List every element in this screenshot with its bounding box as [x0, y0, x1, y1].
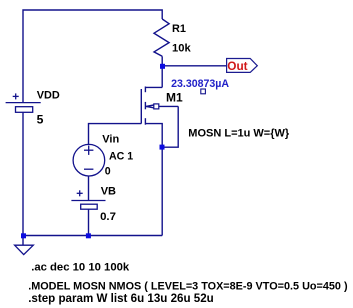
wire Vin plus up to gate corner — [89, 124, 142, 145]
wire ground stem — [22, 236, 24, 245]
resistor R1 — [154, 19, 169, 56]
svg-text:M1: M1 — [166, 91, 183, 105]
wire M1 source node down to rail — [161, 147, 163, 235]
svg-text:Out: Out — [227, 59, 247, 73]
svg-text:VB: VB — [101, 186, 116, 198]
current probe marker square — [201, 89, 206, 94]
node junction at ground — [21, 233, 26, 238]
svg-text:AC 1: AC 1 — [109, 151, 133, 163]
transistor M1 (NMOS) — [141, 87, 178, 148]
svg-text:.MODEL MOSN NMOS ( LEVEL=3 TOX: .MODEL MOSN NMOS ( LEVEL=3 TOX=8E-9 VTO=… — [28, 280, 348, 292]
svg-text:R1: R1 — [172, 23, 186, 35]
node junction at VB/rail — [86, 233, 91, 238]
svg-text:10k: 10k — [172, 42, 191, 54]
net flag Out — [227, 59, 258, 73]
svg-text:VDD: VDD — [37, 90, 60, 102]
wire VDD plus up and top rail to R1 — [23, 10, 162, 103]
wire VDD minus down to ground node — [22, 112, 24, 235]
svg-text:MOSN L=1u W={W}: MOSN L=1u W={W} — [188, 127, 290, 139]
svg-text:.ac dec 10 10 100k: .ac dec 10 10 100k — [31, 261, 130, 273]
wire R1 bottom through node to M1 drain — [161, 56, 163, 87]
svg-text:0: 0 — [105, 165, 111, 177]
node junction at source/bulk — [160, 145, 165, 150]
svg-text:0.7: 0.7 — [100, 211, 116, 223]
svg-text:5: 5 — [37, 112, 44, 126]
wire bottom rail — [23, 235, 162, 237]
voltage source Vin (AC source circle) — [73, 144, 105, 176]
wire Vin minus to VB plus — [88, 176, 90, 201]
wire node to Out flag — [162, 65, 226, 67]
wire M1 bulk down to source node — [162, 106, 178, 147]
svg-text:Vin: Vin — [102, 134, 119, 146]
svg-text:.step param W list 6u 13u 26u: .step param W list 6u 13u 26u 52u — [28, 292, 214, 305]
node junction at R1/drain/Out — [160, 64, 165, 69]
voltage source VB (battery) — [71, 190, 105, 209]
wire VB minus down to rail — [88, 209, 90, 235]
ground — [15, 245, 34, 254]
voltage source VDD (battery) — [6, 93, 41, 112]
svg-text:23.30873µA: 23.30873µA — [171, 78, 229, 90]
